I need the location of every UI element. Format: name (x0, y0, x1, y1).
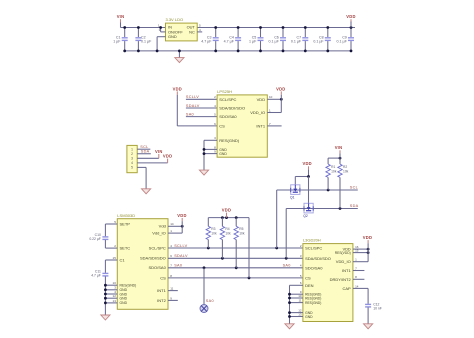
svg-text:10k: 10k (225, 231, 231, 235)
wire net SA0 LSM303D to L3GD20H (168, 266, 303, 269)
wire L3GD20H DEN to ground bus (290, 285, 303, 324)
wire L3GD20H CAP to C12 (353, 288, 368, 304)
wire net SDALV LSM303D to L3GD20H (168, 257, 303, 260)
svg-text:SA0: SA0 (283, 264, 291, 268)
svg-text:SDALV: SDALV (174, 254, 188, 258)
power net VDD supply at level shifter gates (302, 161, 311, 176)
svg-text:4.7 µF: 4.7 µF (224, 40, 235, 44)
capacitor C7 0.1 µF (291, 26, 308, 52)
svg-text:10k: 10k (239, 231, 245, 235)
wire Q1 source down to SCLLV (276, 190, 278, 248)
net label SDALV at LSM303D (174, 254, 188, 258)
accel/magnetometer U2 LSM303D (113, 213, 174, 309)
svg-text:13: 13 (113, 299, 117, 303)
svg-text:14: 14 (355, 284, 359, 288)
svg-text:SCL: SCL (140, 145, 148, 149)
power net VDD supply at LSM303D (177, 213, 186, 226)
resistor R3 10k pull-up (206, 218, 217, 248)
svg-text:0.22 µF: 0.22 µF (89, 237, 101, 241)
svg-text:SA0: SA0 (186, 113, 194, 117)
svg-text:11: 11 (298, 299, 301, 303)
wire L3GD20H RES(GND) GND pins to bus (288, 293, 303, 318)
svg-text:SDO/SA0: SDO/SA0 (305, 265, 323, 270)
wire LDO ON/OFF to IN (159, 26, 165, 32)
ground below header (142, 189, 151, 194)
svg-text:SETC: SETC (120, 246, 131, 251)
svg-text:0.1 µF: 0.1 µF (141, 40, 152, 44)
power net VDD supply at LPS25H CS (173, 86, 182, 126)
svg-text:VDD: VDD (363, 235, 372, 240)
svg-text:VDD_IO: VDD_IO (336, 259, 351, 264)
svg-text:10k: 10k (343, 169, 349, 173)
svg-text:10k: 10k (331, 169, 337, 173)
net label SDA at header pin 2 (141, 150, 150, 154)
svg-text:RES(GND): RES(GND) (305, 301, 321, 305)
wire Q2 source down to SDALV (285, 209, 287, 259)
svg-text:4: 4 (131, 161, 133, 165)
ground below LSM303D (101, 315, 110, 320)
wire L3GD20H RES(VDD) pin 15 (353, 251, 370, 254)
svg-text:R1: R1 (331, 165, 335, 169)
capacitor C11 4.7 uF (91, 270, 108, 278)
svg-text:CAP: CAP (342, 286, 351, 291)
capacitor C9 0.1 µF (337, 26, 354, 52)
wire LSM303D SETP to C10 (105, 224, 117, 236)
wire LPS25H VDD pin 10 (267, 98, 282, 101)
resistor R2 10k pull-up (338, 158, 349, 208)
net label SDA (350, 204, 359, 208)
wire LSM303D INT1 stub (168, 290, 178, 292)
power net VIN supply at header (155, 149, 163, 158)
svg-text:SDA: SDA (350, 204, 359, 208)
net label SCL (350, 186, 358, 190)
svg-text:0.1 µF: 0.1 µF (313, 40, 324, 44)
capacitor C6 0.1 µF (269, 26, 286, 52)
svg-text:4.7 µF: 4.7 µF (91, 274, 101, 278)
svg-text:1 µF: 1 µF (113, 40, 121, 44)
svg-text:INT2: INT2 (157, 298, 166, 303)
svg-text:15: 15 (113, 256, 117, 260)
svg-text:CS: CS (219, 123, 225, 128)
svg-text:CS: CS (160, 275, 166, 280)
capacitor C4 4.7 µF (224, 26, 241, 52)
svg-text:14: 14 (170, 222, 174, 226)
wire LSM303D Vdd_IO pin 1 up (168, 226, 182, 233)
svg-text:RES(GND): RES(GND) (120, 284, 137, 288)
svg-text:SCL/SPC: SCL/SPC (305, 246, 322, 251)
svg-text:VDD: VDD (302, 161, 311, 166)
svg-text:VIN: VIN (155, 149, 163, 154)
svg-text:10: 10 (269, 95, 273, 99)
power net VDD supply at L3GD20H (363, 235, 372, 249)
wire SA0 drop to test point (203, 268, 205, 305)
wire VDD to Q1 gate (295, 175, 310, 184)
svg-text:VIN: VIN (335, 145, 343, 150)
wire C12 to ground (367, 307, 369, 323)
svg-text:1 µF: 1 µF (249, 40, 257, 44)
svg-text:1: 1 (131, 147, 133, 151)
power net VIN supply above R2 (335, 145, 343, 158)
wire SCLLV stub to LPS25H pin 2 (186, 98, 217, 100)
wire L3GD20H VDD pin 16 (353, 248, 370, 251)
svg-text:RES(GND): RES(GND) (305, 296, 321, 300)
svg-text:0.1 µF: 0.1 µF (337, 40, 348, 44)
wire C11 down ground bus (104, 276, 106, 315)
svg-text:Q2: Q2 (303, 214, 308, 218)
capacitor C1 1 µF (113, 26, 127, 52)
wire VIN rail above R1 R2 (328, 157, 341, 160)
svg-text:SDA/SDI/SDO: SDA/SDI/SDO (305, 256, 331, 261)
svg-text:C1: C1 (120, 257, 126, 262)
wire LPS25H INT1 stub (267, 125, 281, 127)
gyroscope U3 L3GD20H (298, 238, 359, 322)
capacitor C5 1 µF (249, 26, 263, 52)
wire top rail LDO OUT to VDD (197, 27, 355, 29)
svg-text:11: 11 (170, 287, 173, 291)
pressure sensor U1 LPS25H (214, 89, 273, 157)
svg-text:DRDY/INT2: DRDY/INT2 (330, 277, 352, 282)
svg-text:SA0: SA0 (206, 299, 214, 303)
net label SA0 at LPS25H (186, 113, 194, 117)
svg-text:0.1 µF: 0.1 µF (291, 40, 302, 44)
svg-text:0.1 µF: 0.1 µF (269, 40, 280, 44)
svg-text:L3GD20H: L3GD20H (303, 238, 321, 243)
svg-text:LSM303D: LSM303D (117, 213, 135, 218)
capacitor C3 4.7 µF (201, 26, 218, 52)
wire LSM303D Vdd pin 14 (168, 225, 184, 228)
wire L3GD20H INT1 stub (353, 270, 365, 272)
svg-text:SETP: SETP (120, 221, 131, 226)
svg-text:INT1: INT1 (157, 288, 166, 293)
resistor R5 10k pull-up (234, 218, 245, 268)
wire L3GD20H DRDY/INT2 stub (353, 278, 365, 280)
svg-text:VDD: VDD (173, 86, 182, 91)
wire header pin 4 to VDD (137, 162, 167, 164)
net label SA0 at test point (206, 299, 214, 303)
svg-text:RES(GND): RES(GND) (219, 138, 239, 143)
LDO regulator U4 3.3V (158, 17, 201, 41)
svg-text:INT1: INT1 (256, 123, 265, 128)
ground below LDO (175, 50, 184, 63)
svg-text:VDD: VDD (346, 14, 355, 19)
svg-text:10 nF: 10 nF (373, 306, 382, 310)
svg-text:R4: R4 (225, 227, 229, 231)
wire net SDA line (286, 207, 358, 210)
wire L3GD20H VDD_IO pin 1 up (353, 249, 368, 262)
svg-text:SDO/SA0: SDO/SA0 (148, 265, 166, 270)
wire VDD rail down to CS net (248, 218, 250, 278)
capacitor C2 0.1 µF (135, 26, 152, 52)
net label SCL at header pin 1 (140, 145, 148, 149)
svg-text:RES(VDD): RES(VDD) (335, 251, 351, 255)
net label SCLLV at LSM303D (174, 244, 187, 248)
svg-text:5: 5 (131, 166, 133, 170)
svg-text:SCLLV: SCLLV (186, 95, 199, 99)
svg-text:NC: NC (189, 29, 195, 34)
svg-text:R3: R3 (211, 227, 215, 231)
svg-text:VIN: VIN (117, 14, 125, 19)
connector J1 5-pin header (127, 145, 137, 172)
wire LDO NC stub (197, 31, 202, 33)
wire LPS25H RES(GND) and GND pins to ground (203, 140, 218, 170)
svg-text:Vdd: Vdd (159, 224, 166, 229)
transistor Q2 MOSFET (303, 203, 313, 218)
wire top rail VIN to LDO IN (121, 27, 166, 29)
test point SA0 no-connect X (200, 305, 208, 313)
svg-text:3: 3 (131, 157, 133, 161)
wire LSM303D INT2 stub (168, 299, 178, 301)
svg-text:GND: GND (120, 297, 128, 301)
svg-text:10: 10 (113, 281, 117, 285)
wire SDALV stub to LPS25H pin 4 (186, 107, 217, 109)
ground below C12 (364, 324, 373, 329)
svg-text:SCL/SPC: SCL/SPC (219, 97, 236, 102)
power net VIN supply symbol (117, 14, 125, 27)
wire VDD rail above R3 R4 R5 (208, 216, 249, 219)
wire header pin 2 SDA stub (137, 153, 151, 155)
svg-text:R2: R2 (343, 165, 347, 169)
svg-text:GND: GND (219, 152, 227, 156)
svg-text:INT1: INT1 (342, 268, 351, 273)
svg-text:Q1: Q1 (290, 196, 295, 200)
capacitor C8 0.1 µF (313, 26, 330, 52)
capacitor C12 10 nF (365, 302, 382, 310)
svg-text:SCLLV: SCLLV (174, 244, 187, 248)
ground below L3GD20H (285, 324, 294, 329)
wire LSM303D ground pins to bus (104, 284, 117, 304)
wire header pin 5 to ground (137, 167, 146, 188)
svg-text:DEN: DEN (305, 283, 314, 288)
wire SA0 stub to LPS25H pin 5 (186, 116, 217, 118)
svg-text:4.7 µF: 4.7 µF (201, 40, 212, 44)
resistor R1 10k pull-up (326, 158, 337, 190)
wire net CS LSM303D to L3GD20H (168, 277, 303, 280)
power net VDD supply above R4 (222, 208, 231, 218)
capacitor C10 0.22 uF (89, 233, 108, 241)
svg-text:VDD: VDD (222, 208, 231, 213)
wire LPS25H VDD_IO pin 1 up to VDD (267, 99, 281, 112)
svg-text:SDALV: SDALV (186, 104, 200, 108)
svg-text:LPS25H: LPS25H (217, 89, 232, 94)
svg-text:GND: GND (305, 315, 313, 319)
svg-text:CS: CS (305, 275, 311, 280)
wire header pin 3 to VIN (137, 157, 159, 159)
power net VDD supply at LPS25H VDD (276, 86, 285, 99)
net label SA0 at LSM303D (174, 264, 182, 268)
svg-text:SCL: SCL (350, 186, 358, 190)
svg-text:VDD: VDD (257, 97, 266, 102)
wire net SCL line (277, 189, 358, 192)
net label SDALV at LPS25H (186, 104, 200, 108)
wire VDD to Q2 gate (308, 177, 310, 204)
svg-text:GND: GND (168, 34, 177, 39)
wire LDO GND down to ground rail (156, 37, 166, 53)
transistor Q1 MOSFET (290, 185, 300, 200)
wire LSM303D C1 pin to C11 (105, 260, 117, 273)
svg-text:VDD_IO: VDD_IO (250, 110, 265, 115)
power net VDD supply at header (163, 154, 172, 163)
svg-text:SDA: SDA (141, 150, 150, 154)
svg-text:SA0: SA0 (174, 264, 182, 268)
svg-text:12: 12 (113, 294, 117, 298)
svg-text:SDA/SDI/SDO: SDA/SDI/SDO (140, 256, 166, 261)
svg-text:R5: R5 (239, 227, 243, 231)
svg-text:2: 2 (131, 152, 133, 156)
wire header pin 1 SCL stub (137, 148, 150, 150)
svg-text:VDD: VDD (163, 154, 172, 159)
svg-text:VDD: VDD (276, 86, 285, 91)
resistor R4 10k pull-up (220, 218, 231, 259)
net label SCLLV at LPS25H (186, 95, 199, 99)
ground below LPS25H (199, 170, 208, 175)
svg-text:10k: 10k (211, 231, 217, 235)
wire VDD to LPS25H CS (177, 125, 217, 127)
svg-text:VDD: VDD (177, 213, 186, 218)
svg-text:SDA/SDI/SDO: SDA/SDI/SDO (219, 106, 245, 111)
wire C10 to LSM303D SETC (105, 240, 117, 248)
svg-text:SCL/SPC: SCL/SPC (149, 245, 166, 250)
svg-text:SDO/SA0: SDO/SA0 (219, 114, 237, 119)
svg-text:Vdd_IO: Vdd_IO (152, 231, 166, 236)
svg-text:3.3V LDO: 3.3V LDO (166, 17, 184, 22)
wire bottom ground rail (125, 50, 351, 52)
power net VDD supply top right (346, 14, 355, 27)
wire net SCLLV LSM303D to L3GD20H (168, 247, 303, 250)
net label SA0 at L3GD20H (283, 264, 291, 268)
svg-text:GND: GND (120, 301, 128, 305)
